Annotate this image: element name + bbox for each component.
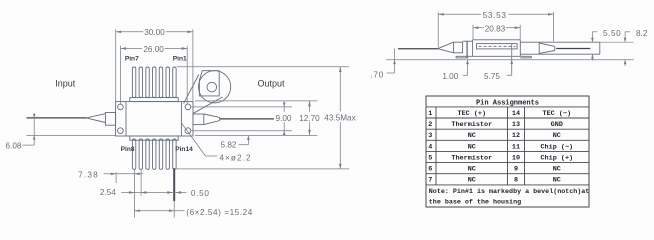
svg-text:9: 9 [514, 166, 518, 174]
svg-text:Chip (−): Chip (−) [540, 143, 573, 151]
svg-text:10: 10 [512, 154, 520, 162]
svg-text:13: 13 [512, 121, 520, 129]
svg-text:43.5Max: 43.5Max [324, 113, 355, 122]
svg-text:26.00: 26.00 [143, 45, 164, 54]
svg-text:Thermistor: Thermistor [451, 154, 492, 162]
svg-text:1.00: 1.00 [442, 72, 458, 81]
svg-text:Note: Pin#1 is markedby a beve: Note: Pin#1 is markedby a bevel(notch)at [429, 188, 590, 196]
svg-text:5.75: 5.75 [484, 72, 500, 81]
svg-text:2.54: 2.54 [100, 188, 116, 197]
svg-text:Thermistor: Thermistor [451, 121, 492, 129]
svg-text:Pin1: Pin1 [173, 56, 187, 63]
svg-text:53.53: 53.53 [483, 11, 507, 20]
svg-text:12: 12 [512, 132, 520, 140]
svg-text:7: 7 [428, 177, 432, 185]
svg-text:5.50: 5.50 [603, 29, 621, 38]
svg-text:TEC (−): TEC (−) [543, 110, 572, 118]
svg-text:2: 2 [428, 121, 432, 129]
svg-text:5.82: 5.82 [221, 141, 237, 150]
svg-text:(6×2.54) =15.24: (6×2.54) =15.24 [186, 208, 253, 217]
svg-text:Input: Input [55, 78, 76, 88]
svg-text:6.08: 6.08 [6, 141, 22, 150]
svg-text:14: 14 [512, 110, 520, 118]
svg-text:Output: Output [257, 79, 285, 89]
svg-text:NC: NC [553, 177, 561, 185]
svg-text:NC: NC [468, 177, 476, 185]
svg-text:Pin8: Pin8 [121, 146, 135, 153]
svg-text:Pin Assignments: Pin Assignments [476, 99, 539, 107]
svg-text:7.38: 7.38 [78, 171, 99, 180]
svg-text:30.00: 30.00 [144, 28, 165, 37]
svg-text:4×ø2.2: 4×ø2.2 [219, 153, 251, 162]
svg-text:Pin7: Pin7 [125, 56, 139, 63]
svg-text:0.50: 0.50 [191, 189, 210, 198]
svg-text:NC: NC [468, 143, 476, 151]
svg-text:9.00: 9.00 [276, 114, 292, 123]
svg-text:.70: .70 [370, 70, 384, 79]
svg-text:5: 5 [428, 154, 432, 162]
svg-text:4: 4 [428, 143, 432, 151]
svg-text:1: 1 [428, 110, 432, 118]
svg-text:TEC (+): TEC (+) [458, 110, 487, 118]
svg-text:11: 11 [512, 143, 520, 151]
svg-text:the base of the housing: the base of the housing [429, 199, 521, 207]
svg-text:8.2: 8.2 [636, 29, 648, 38]
svg-text:NC: NC [553, 166, 561, 174]
svg-text:GND: GND [551, 121, 563, 129]
svg-text:8: 8 [514, 177, 518, 185]
svg-text:NC: NC [468, 132, 476, 140]
svg-text:NC: NC [468, 166, 476, 174]
svg-text:12.70: 12.70 [299, 114, 320, 123]
svg-text:Chip (+): Chip (+) [540, 154, 573, 162]
svg-text:20.83: 20.83 [485, 24, 506, 33]
svg-text:Pin14: Pin14 [175, 146, 193, 153]
svg-text:NC: NC [553, 132, 561, 140]
svg-text:3: 3 [428, 132, 432, 140]
svg-text:6: 6 [428, 166, 432, 174]
